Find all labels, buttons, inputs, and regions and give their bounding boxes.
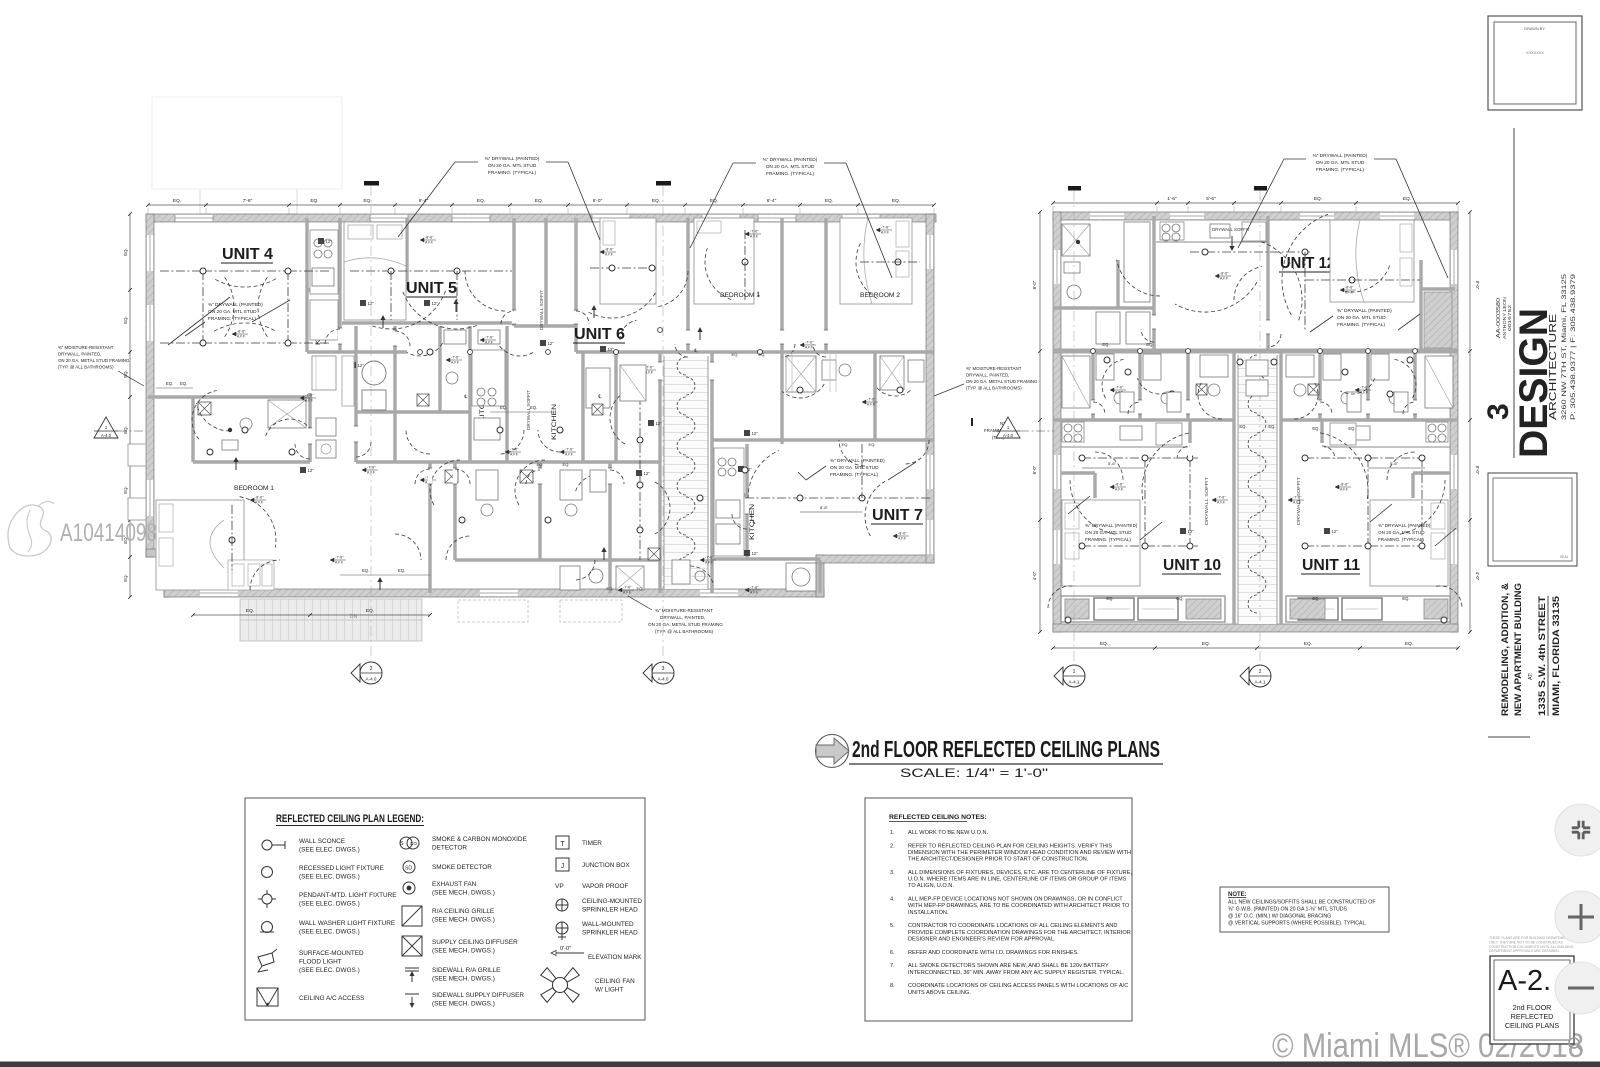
section centerlines through left plan <box>370 186 372 659</box>
unit4 kitchen strip appliances <box>310 230 338 294</box>
svg-text:WALL SCONCE: WALL SCONCE <box>299 838 345 845</box>
svg-text:2: 2 <box>370 666 373 672</box>
svg-text:XXXXXXX: XXXXXXX <box>1526 51 1544 55</box>
unit11 kitchen counter <box>1322 446 1450 448</box>
svg-text:-7'-6": -7'-6" <box>750 230 759 234</box>
svg-text:A.F.F.: A.F.F. <box>237 334 246 338</box>
right plan outer walls <box>1053 212 1458 220</box>
svg-text:A-4.0: A-4.0 <box>101 433 112 438</box>
section ticks above right plan <box>1068 186 1081 191</box>
svg-text:A.F.F.: A.F.F. <box>335 560 344 564</box>
svg-text:(SEE MECH. DWGS.): (SEE MECH. DWGS.) <box>432 948 495 955</box>
unit12 fixture dashdot <box>1190 251 1310 253</box>
svg-text:A.F.F.: A.F.F. <box>1293 500 1302 504</box>
right stair scallops <box>1248 355 1257 373</box>
right plan interior walls <box>1053 349 1458 354</box>
svg-text:A.F.F.: A.F.F. <box>1220 276 1229 280</box>
svg-text:JUNCTION BOX: JUNCTION BOX <box>582 862 630 869</box>
legend flood light symbol <box>258 953 274 966</box>
svg-text:EQ.: EQ. <box>1312 426 1319 431</box>
bathrooms middle small fixtures <box>417 394 429 406</box>
legend smoke detector symbol <box>403 861 415 873</box>
svg-text:5'-6": 5'-6" <box>1206 196 1216 202</box>
svg-text:CONSTRUCTION DOCUMENTS UNTIL A: CONSTRUCTION DOCUMENTS UNTIL ALL BUILDIN… <box>1489 945 1574 949</box>
svg-text:8.: 8. <box>890 983 895 989</box>
svg-text:REFLECTED CEILING PLAN LEGEND:: REFLECTED CEILING PLAN LEGEND: <box>276 813 424 825</box>
UI minus circle button <box>1555 962 1600 1014</box>
section centerlines right plan <box>1073 191 1075 662</box>
small NOTE box frame <box>1220 887 1389 932</box>
svg-text:EQ.: EQ. <box>123 426 128 434</box>
svg-text:12": 12" <box>326 239 333 244</box>
svg-text:EQ.: EQ. <box>607 586 614 591</box>
right plan window openings <box>1090 213 1124 219</box>
svg-text:6.: 6. <box>890 950 895 956</box>
svg-text:(SEE ELEC. DWGS.): (SEE ELEC. DWGS.) <box>299 847 360 854</box>
svg-text:WALL WASHER LIGHT FIXTURE: WALL WASHER LIGHT FIXTURE <box>299 920 395 927</box>
svg-text:TIMER: TIMER <box>582 840 602 847</box>
unit 5 bed furniture <box>344 222 406 320</box>
svg-text:-7'-6": -7'-6" <box>867 398 876 402</box>
svg-text:UNIT 12: UNIT 12 <box>1280 255 1335 272</box>
svg-text:⅜" MOISTURE-RESISTANT: ⅜" MOISTURE-RESISTANT <box>58 345 114 350</box>
svg-text:1.: 1. <box>890 830 895 836</box>
svg-text:A.F.F.: A.F.F. <box>867 402 876 406</box>
svg-text:FRAMING. (TYPICAL): FRAMING. (TYPICAL) <box>830 472 878 478</box>
svg-text:EQ.: EQ. <box>123 486 128 494</box>
svg-text:A.F.F.: A.F.F. <box>623 590 632 594</box>
left wall exterior window boxes <box>128 444 146 466</box>
svg-text:R/A CEILING GRILLE: R/A CEILING GRILLE <box>432 908 494 915</box>
svg-text:3.: 3. <box>890 870 895 876</box>
svg-text:3: 3 <box>662 666 665 672</box>
svg-text:(SEE MECH. DWGS.): (SEE MECH. DWGS.) <box>432 976 495 983</box>
legend supply ceiling diffuser symbol <box>402 936 422 956</box>
svg-text:A.F.F.: A.F.F. <box>485 340 494 344</box>
right plan small appliances middle <box>1246 360 1268 376</box>
svg-text:EQ.: EQ. <box>637 586 644 591</box>
svg-text:UNIT 10: UNIT 10 <box>1163 557 1221 574</box>
svg-text:UNIT 7: UNIT 7 <box>872 507 923 524</box>
svg-text:EQ.: EQ. <box>1405 641 1413 647</box>
svg-text:ON 20 GA. MTL STUD: ON 20 GA. MTL STUD <box>1085 530 1132 535</box>
svg-text:2nd FLOOR: 2nd FLOOR <box>1513 1003 1552 1012</box>
washer dryer closet bottom <box>786 563 816 591</box>
svg-text:RECESSED LIGHT FIXTURE: RECESSED LIGHT FIXTURE <box>299 865 384 872</box>
svg-text:EQ.: EQ. <box>246 608 254 614</box>
centerline tick between plans <box>971 418 973 426</box>
svg-text:SPRINKLER HEAD: SPRINKLER HEAD <box>582 930 638 937</box>
svg-text:12": 12" <box>432 301 439 306</box>
elevation marker below left plan 2/A-4.0 <box>360 662 382 684</box>
svg-text:-7'-6": -7'-6" <box>335 556 344 560</box>
corridor fixture chain <box>639 380 641 560</box>
svg-text:⅜" MOISTURE-RESISTANT: ⅜" MOISTURE-RESISTANT <box>655 608 713 613</box>
upper bathroom arcs <box>782 384 824 398</box>
svg-text:THESE PLANS ARE FOR BUILDING D: THESE PLANS ARE FOR BUILDING DEPARTMENT <box>1489 936 1569 940</box>
svg-text:REFLECTED: REFLECTED <box>1511 1012 1554 1021</box>
svg-text:A.F.F.: A.F.F. <box>898 536 907 540</box>
svg-text:REFLECTED CEILING NOTES:: REFLECTED CEILING NOTES: <box>889 814 987 821</box>
svg-text:DETECTOR: DETECTOR <box>432 845 467 852</box>
svg-text:VAPOR PROOF: VAPOR PROOF <box>582 883 628 890</box>
svg-text:⅜" DRYWALL (PAINTED): ⅜" DRYWALL (PAINTED) <box>1378 523 1431 528</box>
svg-text:5'-6": 5'-6" <box>1108 461 1117 466</box>
stair scallop arcs <box>677 357 686 375</box>
svg-text:A.F.F.: A.F.F. <box>305 398 314 402</box>
svg-text:PENDANT-MTD. LIGHT FIXTURE: PENDANT-MTD. LIGHT FIXTURE <box>299 892 397 899</box>
svg-text:UNIT 5: UNIT 5 <box>406 280 457 297</box>
svg-text:EQ.: EQ. <box>1239 424 1246 429</box>
svg-text:DEPARTMENT APPROVALS ARE OBTAI: DEPARTMENT APPROVALS ARE OBTAINED. <box>1489 949 1560 953</box>
svg-text:A.F.F.: A.F.F. <box>1217 500 1226 504</box>
west elevation marker left of right plan <box>996 417 1020 438</box>
svg-text:A.F.F.: A.F.F. <box>750 590 759 594</box>
svg-text:EQ.: EQ. <box>1314 196 1322 202</box>
svg-text:(SEE ELEC. DWGS.): (SEE ELEC. DWGS.) <box>299 901 360 908</box>
svg-text:A.F.F.: A.F.F. <box>1115 487 1124 491</box>
unit7 fixtures <box>745 497 930 499</box>
svg-text:A.F.F.: A.F.F. <box>565 452 574 456</box>
svg-text:UNIT 11: UNIT 11 <box>1302 557 1360 574</box>
svg-text:EQ.: EQ. <box>1146 342 1153 347</box>
svg-text:-8'-6": -8'-6" <box>255 496 264 500</box>
svg-text:-8'-6": -8'-6" <box>1220 272 1229 276</box>
left plan extra arcs <box>197 403 231 431</box>
svg-text:EQ.: EQ. <box>362 568 369 573</box>
svg-text:(SEE ELEC. DWGS.): (SEE ELEC. DWGS.) <box>299 967 360 974</box>
legend wall washer symbol <box>262 922 273 933</box>
small vent arrows <box>235 460 237 470</box>
legend ceiling sprinkler symbol <box>556 899 568 911</box>
svg-text:A10414098: A10414098 <box>60 519 157 547</box>
svg-text:8'-0": 8'-0" <box>1475 281 1480 290</box>
svg-text:REFER AND COORDINATE WITH I.D.: REFER AND COORDINATE WITH I.D. DRAWINGS … <box>908 950 1079 956</box>
svg-text:-7'-6": -7'-6" <box>1293 496 1302 500</box>
UI collapse circle button <box>1555 804 1600 856</box>
svg-text:-8'-6": -8'-6" <box>1115 483 1124 487</box>
svg-text:J: J <box>561 863 565 870</box>
svg-text:W/ LIGHT: W/ LIGHT <box>595 987 623 994</box>
svg-text:DRYWALL SOFFIT: DRYWALL SOFFIT <box>1204 476 1209 525</box>
svg-text:SIDEWALL R/A GRILLE: SIDEWALL R/A GRILLE <box>432 967 500 974</box>
svg-text:A.F.F.: A.F.F. <box>750 234 759 238</box>
svg-text:@ VERTICAL SUPPORTS (WHERE POS: @ VERTICAL SUPPORTS (WHERE POSSIBLE). TY… <box>1228 921 1367 927</box>
svg-text:NOTE:: NOTE: <box>1228 892 1247 898</box>
svg-text:BEDROOM 2: BEDROOM 2 <box>860 292 901 299</box>
svg-text:-7'-6": -7'-6" <box>805 341 814 345</box>
svg-text:FRAMING. (TYPICAL): FRAMING. (TYPICAL) <box>1337 322 1385 328</box>
legend wall sconce symbol <box>262 840 272 850</box>
hall closet fixtures <box>316 418 336 436</box>
svg-text:6'-0": 6'-0" <box>593 198 603 204</box>
svg-text:EQ.: EQ. <box>1312 596 1319 601</box>
svg-text:DRYWALL, PAINTED,: DRYWALL, PAINTED, <box>660 615 705 620</box>
svg-text:T: T <box>560 841 565 848</box>
unit11 fixture grid <box>1305 457 1425 459</box>
svg-text:1'-6": 1'-6" <box>1167 196 1177 202</box>
svg-text:INTERCONNECTED, 36" MIN. AWAY: INTERCONNECTED, 36" MIN. AWAY FROM ANY A… <box>908 970 1124 976</box>
svg-text:SCALE: 1/4" = 1'-0": SCALE: 1/4" = 1'-0" <box>900 768 1048 780</box>
svg-text:EQ.: EQ. <box>398 568 405 573</box>
svg-text:ARCHITECTURE: ARCHITECTURE <box>1547 314 1559 420</box>
svg-text:EQ.: EQ. <box>1102 342 1109 347</box>
svg-text:BEDROOM 1: BEDROOM 1 <box>720 292 761 299</box>
bedroom 1 bottom-left bed <box>156 500 244 590</box>
svg-text:A.F.F.: A.F.F. <box>705 560 714 564</box>
12 inch soffit markers <box>318 238 324 244</box>
reflected ceiling notes box frame <box>865 798 1132 1021</box>
svg-text:DIMENSION WITH THE PERIMETER W: DIMENSION WITH THE PERIMETER WINDOW HEAD… <box>908 850 1131 856</box>
svg-text:FRAMING. (TYPICAL): FRAMING. (TYPICAL) <box>1316 167 1364 173</box>
bathroom arcs left <box>192 391 217 440</box>
svg-text:⅜" G.W.B. (PAINTED) ON 20 GA 1: ⅜" G.W.B. (PAINTED) ON 20 GA 1-⅜" MTL ST… <box>1228 907 1348 913</box>
svg-text:4'-0": 4'-0" <box>1032 571 1037 580</box>
svg-text:12": 12" <box>1188 529 1195 534</box>
svg-text:REFER TO REFLECTED CEILING PLA: REFER TO REFLECTED CEILING PLAN FOR CEIL… <box>908 843 1112 849</box>
svg-text:3260 NW 7TH ST, Miami, FL 3312: 3260 NW 7TH ST, Miami, FL 33125 <box>1561 273 1568 420</box>
svg-text:EQ.: EQ. <box>1268 424 1275 429</box>
svg-text:⅜" DRYWALL (PAINTED): ⅜" DRYWALL (PAINTED) <box>485 156 540 162</box>
legend smoke CO detector symbol <box>400 837 412 849</box>
svg-text:-7'-6": -7'-6" <box>1115 386 1124 390</box>
svg-text:ON 20 GA. METAL STUD FRAMING: ON 20 GA. METAL STUD FRAMING <box>648 622 723 627</box>
svg-text:EQ.: EQ. <box>1100 641 1108 647</box>
unit10 kitchen counter <box>1061 446 1190 448</box>
svg-text:ONLY. THEY ARE NOT TO BE CONS: ONLY. THEY ARE NOT TO BE CONSTRUED AS <box>1489 940 1564 944</box>
svg-text:EQ.: EQ. <box>123 248 128 256</box>
left plan faint roof outline above unit 4 <box>200 189 297 214</box>
unit5 kitchen appliances <box>472 350 505 406</box>
svg-text:A-4.0: A-4.0 <box>366 677 377 682</box>
svg-text:-7'-6": -7'-6" <box>485 336 494 340</box>
svg-text:SPRINKLER HEAD: SPRINKLER HEAD <box>582 907 638 914</box>
svg-text:A.F.F.: A.F.F. <box>1340 487 1349 491</box>
svg-text:1: 1 <box>105 425 108 430</box>
svg-text:-7'-6": -7'-6" <box>623 586 632 590</box>
svg-text:A.F.F.: A.F.F. <box>425 240 434 244</box>
svg-text:EQ.: EQ. <box>363 198 371 204</box>
left plan outer walls <box>146 214 936 222</box>
MLS id watermark bird logo <box>8 505 51 556</box>
svg-text:-7'-6": -7'-6" <box>881 226 890 230</box>
svg-text:(TYP. @ ALL BATHROOMS): (TYP. @ ALL BATHROOMS) <box>58 365 114 370</box>
unit 6 fixtures <box>590 267 656 269</box>
svg-text:WALL-MOUNTED: WALL-MOUNTED <box>582 921 634 928</box>
legend exhaust fan symbol <box>403 882 415 894</box>
legend sidewall supply diffuser symbol <box>405 993 419 995</box>
svg-text:EQ.: EQ. <box>869 442 876 447</box>
legend ceiling AC access symbol <box>257 988 278 1006</box>
svg-text:EQ.: EQ. <box>1403 196 1411 202</box>
svg-text:DRYWALL SOFFIT: DRYWALL SOFFIT <box>539 290 544 330</box>
svg-text:A-4.0: A-4.0 <box>1003 433 1014 438</box>
unit 6 beds top <box>600 218 656 304</box>
svg-text:UNITS ABOVE CEILING.: UNITS ABOVE CEILING. <box>908 990 971 996</box>
svg-text:-8'-6": -8'-6" <box>1340 483 1349 487</box>
svg-text:(TYP. @ ALL BATHROOMS): (TYP. @ ALL BATHROOMS) <box>655 629 714 634</box>
svg-text:(SEE MECH. DWGS.): (SEE MECH. DWGS.) <box>432 1001 495 1008</box>
svg-text:ON 20 GA. METAL STUD FRAMING: ON 20 GA. METAL STUD FRAMING <box>58 358 130 363</box>
svg-text:-7'-6": -7'-6" <box>565 448 574 452</box>
unit 4 ceiling fixture dash-dot grid <box>203 270 288 272</box>
svg-text:(TYP. @ ALL BATHROOMS): (TYP. @ ALL BATHROOMS) <box>966 386 1022 391</box>
svg-text:8'-8": 8'-8" <box>820 505 829 510</box>
svg-text:4.: 4. <box>890 897 895 903</box>
svg-text:EQ.: EQ. <box>477 198 485 204</box>
legend ceiling fan symbol <box>553 978 568 993</box>
svg-text:A-4.0: A-4.0 <box>658 677 669 682</box>
unit 5 fixtures <box>350 270 512 272</box>
right plan horizontal door gaps bottom walls <box>1188 443 1192 457</box>
unit7 kitchen appliances <box>714 448 744 556</box>
svg-text:EQ.: EQ. <box>366 608 374 614</box>
svg-text:7'-8": 7'-8" <box>243 198 253 204</box>
svg-text:ON 20 GA. MTL STUD: ON 20 GA. MTL STUD <box>766 164 815 170</box>
svg-text:EQ.: EQ. <box>500 405 507 410</box>
svg-text:CONTRACTOR TO COORDINATE LOCAT: CONTRACTOR TO COORDINATE LOCATIONS OF AL… <box>908 923 1117 929</box>
svg-text:SEAL: SEAL <box>1560 555 1569 559</box>
elevation marker below right plan 1/A-4.1 <box>1063 665 1085 687</box>
svg-text:SMOKE & CARBON MONOXIDE: SMOKE & CARBON MONOXIDE <box>432 836 527 843</box>
left plan left dimension column <box>129 214 131 597</box>
svg-text:A.F.F.: A.F.F. <box>605 252 614 256</box>
top-left bathroom fixtures <box>1062 224 1090 256</box>
below-plan exterior stair going down <box>240 599 422 641</box>
svg-text:BEDROOM 1: BEDROOM 1 <box>234 485 275 492</box>
svg-text:EQ.: EQ. <box>530 405 537 410</box>
svg-text:EQ.: EQ. <box>310 198 318 204</box>
svg-text:12": 12" <box>1332 529 1339 534</box>
svg-text:ALL DIMENSIONS OF FIXTURES, DE: ALL DIMENSIONS OF FIXTURES, DEVICES, ETC… <box>908 870 1132 876</box>
svg-text:ALL SMOKE DETECTORS SHOWN ARE: ALL SMOKE DETECTORS SHOWN ARE NEW, AND S… <box>908 963 1109 969</box>
scattered AFF tags <box>300 396 304 400</box>
svg-text:4'-0": 4'-0" <box>1475 572 1480 581</box>
svg-text:A.F.F.: A.F.F. <box>805 345 814 349</box>
svg-text:FRAMING. (TYPICAL): FRAMING. (TYPICAL) <box>208 316 256 322</box>
svg-text:SUPPLY CEILING DIFFUSER: SUPPLY CEILING DIFFUSER <box>432 939 518 946</box>
svg-text:12": 12" <box>608 347 615 352</box>
svg-text:-8'-6": -8'-6" <box>898 532 907 536</box>
svg-text:A.F.F.: A.F.F. <box>881 230 890 234</box>
legend sidewall RA grille symbol <box>405 967 419 969</box>
svg-text:1335 S.W. 4th STREET: 1335 S.W. 4th STREET <box>1537 595 1547 716</box>
svg-text:EQ.: EQ. <box>892 198 900 204</box>
svg-text:(SEE MECH. DWGS.): (SEE MECH. DWGS.) <box>432 890 495 897</box>
sidebar drawn-by box <box>1488 16 1582 110</box>
svg-text:EQ.: EQ. <box>563 462 570 467</box>
svg-text:EXHAUST FAN: EXHAUST FAN <box>432 881 477 888</box>
bottom porches <box>1061 596 1225 622</box>
sidebar horizontal rule <box>1488 736 1530 738</box>
legend timer symbol <box>556 836 569 849</box>
svg-text:A-4.1: A-4.1 <box>1255 680 1266 685</box>
middle band extra fixtures <box>1120 392 1134 412</box>
middle band arcs near stair <box>1198 383 1222 419</box>
svg-text:ON 20 GA. MTL STUD: ON 20 GA. MTL STUD <box>488 163 537 169</box>
legend junction box symbol <box>556 858 569 871</box>
svg-text:12": 12" <box>308 468 315 473</box>
left plan window openings in outer walls <box>175 215 213 221</box>
unit10 bed <box>1062 500 1140 586</box>
porch arcs <box>1048 586 1074 608</box>
svg-text:FRAMING. (TYPICAL): FRAMING. (TYPICAL) <box>488 170 536 176</box>
svg-text:EQ.: EQ. <box>1106 596 1113 601</box>
svg-text:EQ.: EQ. <box>825 198 833 204</box>
left plan door openings and swing arcs <box>338 328 342 344</box>
svg-text:EQ.: EQ. <box>732 352 739 357</box>
svg-text:⅜" DRYWALL (PAINTED): ⅜" DRYWALL (PAINTED) <box>1337 308 1392 314</box>
svg-text:EQ.: EQ. <box>173 198 181 204</box>
svg-text:A-2.: A-2. <box>1498 965 1551 997</box>
elevation marker below right plan 2/A-4.1 <box>1249 665 1271 687</box>
right plan right dimension column <box>1469 212 1471 632</box>
svg-text:KITCHEN: KITCHEN <box>750 504 756 540</box>
svg-text:8'-0": 8'-0" <box>1475 466 1480 475</box>
tiny magnifier icon at bottom <box>1569 1038 1579 1048</box>
svg-text:DRAWN BY:: DRAWN BY: <box>1524 27 1545 31</box>
left bathroom block fixtures <box>198 402 211 415</box>
right plan left dimension column <box>1039 212 1041 632</box>
legend RA ceiling grille symbol <box>402 906 422 926</box>
svg-text:-7'-6": -7'-6" <box>305 394 314 398</box>
svg-text:FRAMING. (TYPICAL): FRAMING. (TYPICAL) <box>766 171 814 177</box>
more aff tags <box>480 338 484 342</box>
svg-text:COORDINATE LOCATIONS OF CEILIN: COORDINATE LOCATIONS OF CEILING ACCESS P… <box>908 983 1128 989</box>
svg-text:DRYWALL, PAINTED,: DRYWALL, PAINTED, <box>966 373 1009 378</box>
mid-left closet column details <box>312 356 336 390</box>
interior EQ dims <box>156 387 193 389</box>
left plan top dimension line <box>148 204 934 206</box>
svg-text:P: 305.438.9377 | F: 305.438.9: P: 305.438.9377 | F: 305.438.9379 <box>1570 273 1577 420</box>
left plan extra fixtures and sconces <box>418 350 423 355</box>
svg-text:⅜" DRYWALL (PAINTED): ⅜" DRYWALL (PAINTED) <box>830 458 885 464</box>
svg-text:ON 20 GA. MTL STUD: ON 20 GA. MTL STUD <box>1316 160 1365 166</box>
svg-text:ALL WORK TO BE NEW U.O.N.: ALL WORK TO BE NEW U.O.N. <box>908 830 989 836</box>
svg-text:(SEE MECH. DWGS.): (SEE MECH. DWGS.) <box>432 917 495 924</box>
svg-text:2nd FLOOR REFLECTED CEILING PL: 2nd FLOOR REFLECTED CEILING PLANS <box>852 736 1160 762</box>
left plan extra ceiling symbols <box>648 548 660 560</box>
svg-text:DRYWALL, PAINTED,: DRYWALL, PAINTED, <box>58 352 101 357</box>
svg-text:⅜" DRYWALL (PAINTED): ⅜" DRYWALL (PAINTED) <box>1313 153 1368 159</box>
left plan central staircase <box>664 356 708 589</box>
svg-text:-8'-6": -8'-6" <box>425 236 434 240</box>
svg-text:CEILING FAN: CEILING FAN <box>595 978 635 985</box>
svg-text:UNIT 4: UNIT 4 <box>222 246 273 263</box>
left plan bottom dimension line <box>193 614 430 616</box>
svg-text:REMODELING, ADDITION, &: REMODELING, ADDITION, & <box>1500 583 1511 716</box>
svg-text:(SEE ELEC. DWGS.): (SEE ELEC. DWGS.) <box>299 929 360 936</box>
svg-text:0'-0": 0'-0" <box>560 946 571 952</box>
svg-text:A-4.1: A-4.1 <box>1069 680 1080 685</box>
svg-text:WITH MEP-FP DRAWINGS, ARE TO B: WITH MEP-FP DRAWINGS, ARE TO BE COORDINA… <box>908 903 1130 909</box>
svg-text:VP: VP <box>555 883 564 890</box>
middle band bathroom fixtures <box>1096 354 1114 380</box>
svg-text:U.O.N. WHERE ITEMS ARE IN LIN: U.O.N. WHERE ITEMS ARE IN LINE, CENTERLI… <box>908 877 1127 883</box>
unit12 bed <box>1330 220 1414 302</box>
svg-text:CO: CO <box>410 841 417 846</box>
svg-text:CEILING-MOUNTED: CEILING-MOUNTED <box>582 898 642 905</box>
svg-text:SURFACE-MOUNTED: SURFACE-MOUNTED <box>299 950 364 957</box>
right plan door openings and arcs <box>1152 315 1156 329</box>
svg-text:-8'-6": -8'-6" <box>1345 286 1354 290</box>
left plan interior walls <box>305 218 308 352</box>
svg-text:3: 3 <box>1482 403 1515 420</box>
bottom-left bedroom fixture <box>229 537 235 543</box>
svg-text:EQ.: EQ. <box>537 462 544 467</box>
svg-text:DRYWALL SOFFIT: DRYWALL SOFFIT <box>1212 227 1250 232</box>
svg-text:PROVIDE COMPLETE COORDINATION: PROVIDE COMPLETE COORDINATION DRAWINGS F… <box>908 930 1131 936</box>
